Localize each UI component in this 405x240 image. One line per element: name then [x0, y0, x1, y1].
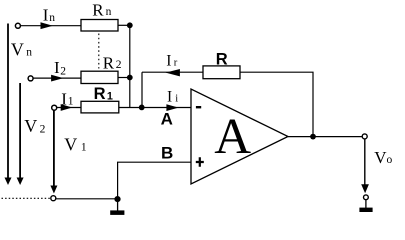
junction dot ground node — [114, 196, 120, 202]
junction dot Rn-bus — [127, 22, 133, 28]
svg-text:n: n — [49, 12, 55, 24]
svg-text:R: R — [103, 54, 115, 73]
svg-text:A: A — [161, 110, 173, 129]
wire I1 input — [57, 107, 81, 109]
output ground stub — [365, 200, 367, 208]
svg-text:I: I — [61, 89, 67, 108]
svg-text:1: 1 — [81, 142, 87, 154]
ground rail wire — [56, 198, 118, 200]
wire Rn to bus — [118, 24, 130, 26]
svg-text:2: 2 — [60, 65, 66, 77]
svg-text:o: o — [387, 154, 393, 166]
svg-text:i: i — [175, 94, 178, 105]
resistor R1 — [81, 101, 119, 113]
junction dot node A — [139, 105, 145, 111]
current arrow Ir — [166, 69, 180, 76]
output terminal Vo — [362, 134, 367, 139]
output ground terminal circle — [364, 195, 369, 200]
ground stub — [117, 199, 119, 211]
bus wire vertical — [129, 25, 131, 107]
op-amp minus input sign — [196, 106, 201, 108]
input terminal I1 — [52, 105, 57, 110]
current arrow I1 — [61, 104, 73, 111]
op-amp plus input sign — [196, 157, 204, 167]
current arrow I2 — [51, 75, 63, 82]
voltage arrow Vn — [7, 24, 9, 179]
input terminal I2 — [28, 76, 33, 81]
svg-text:I: I — [167, 89, 172, 106]
svg-text:I: I — [43, 6, 49, 25]
svg-text:I: I — [166, 52, 171, 69]
wire R2 to bus — [118, 77, 130, 79]
current arrow Ii — [166, 104, 178, 111]
resistor Rn — [81, 20, 118, 32]
wire node B — [118, 162, 191, 199]
current arrow In — [41, 22, 53, 29]
ground bar — [110, 210, 124, 215]
voltage arrow V1 — [53, 110, 55, 186]
svg-text:R: R — [92, 1, 104, 20]
wire In input — [21, 25, 82, 27]
wire R1 to node A — [119, 107, 191, 109]
svg-text:n: n — [26, 47, 32, 59]
svg-text:B: B — [161, 144, 173, 163]
svg-text:V: V — [64, 135, 77, 155]
resistor R2 — [81, 71, 118, 83]
svg-text:R: R — [94, 85, 106, 103]
feedback wire vertical left — [141, 72, 143, 107]
voltage arrow V2 — [19, 83, 21, 179]
resistor R feedback — [203, 66, 240, 79]
junction dot output-feedback — [310, 134, 316, 140]
svg-text:I: I — [54, 58, 60, 77]
svg-text:V: V — [24, 116, 37, 136]
svg-text:n: n — [106, 6, 112, 18]
output reference line — [364, 139, 366, 186]
feedback wire right — [240, 72, 313, 136]
svg-text:V: V — [374, 148, 387, 167]
svg-text:r: r — [174, 57, 178, 68]
dotted return rail — [2, 197, 51, 199]
svg-text:1: 1 — [107, 91, 113, 103]
feedback wire left — [142, 71, 203, 73]
op-amp U1 — [191, 89, 288, 184]
junction dot R2-bus — [127, 75, 133, 81]
svg-text:V: V — [11, 40, 24, 60]
svg-text:R: R — [216, 50, 228, 68]
svg-text:A: A — [214, 109, 251, 165]
svg-text:2: 2 — [40, 124, 46, 136]
output wire — [288, 136, 362, 138]
ellipsis dots between Rn and R2 — [98, 34, 100, 69]
output ground bar — [359, 208, 372, 212]
svg-text:2: 2 — [116, 59, 122, 71]
input terminal In — [15, 23, 20, 28]
output arrow down — [361, 184, 369, 193]
return terminal circle — [51, 196, 56, 201]
svg-text:1: 1 — [68, 95, 74, 107]
wire I2 input — [33, 77, 81, 79]
